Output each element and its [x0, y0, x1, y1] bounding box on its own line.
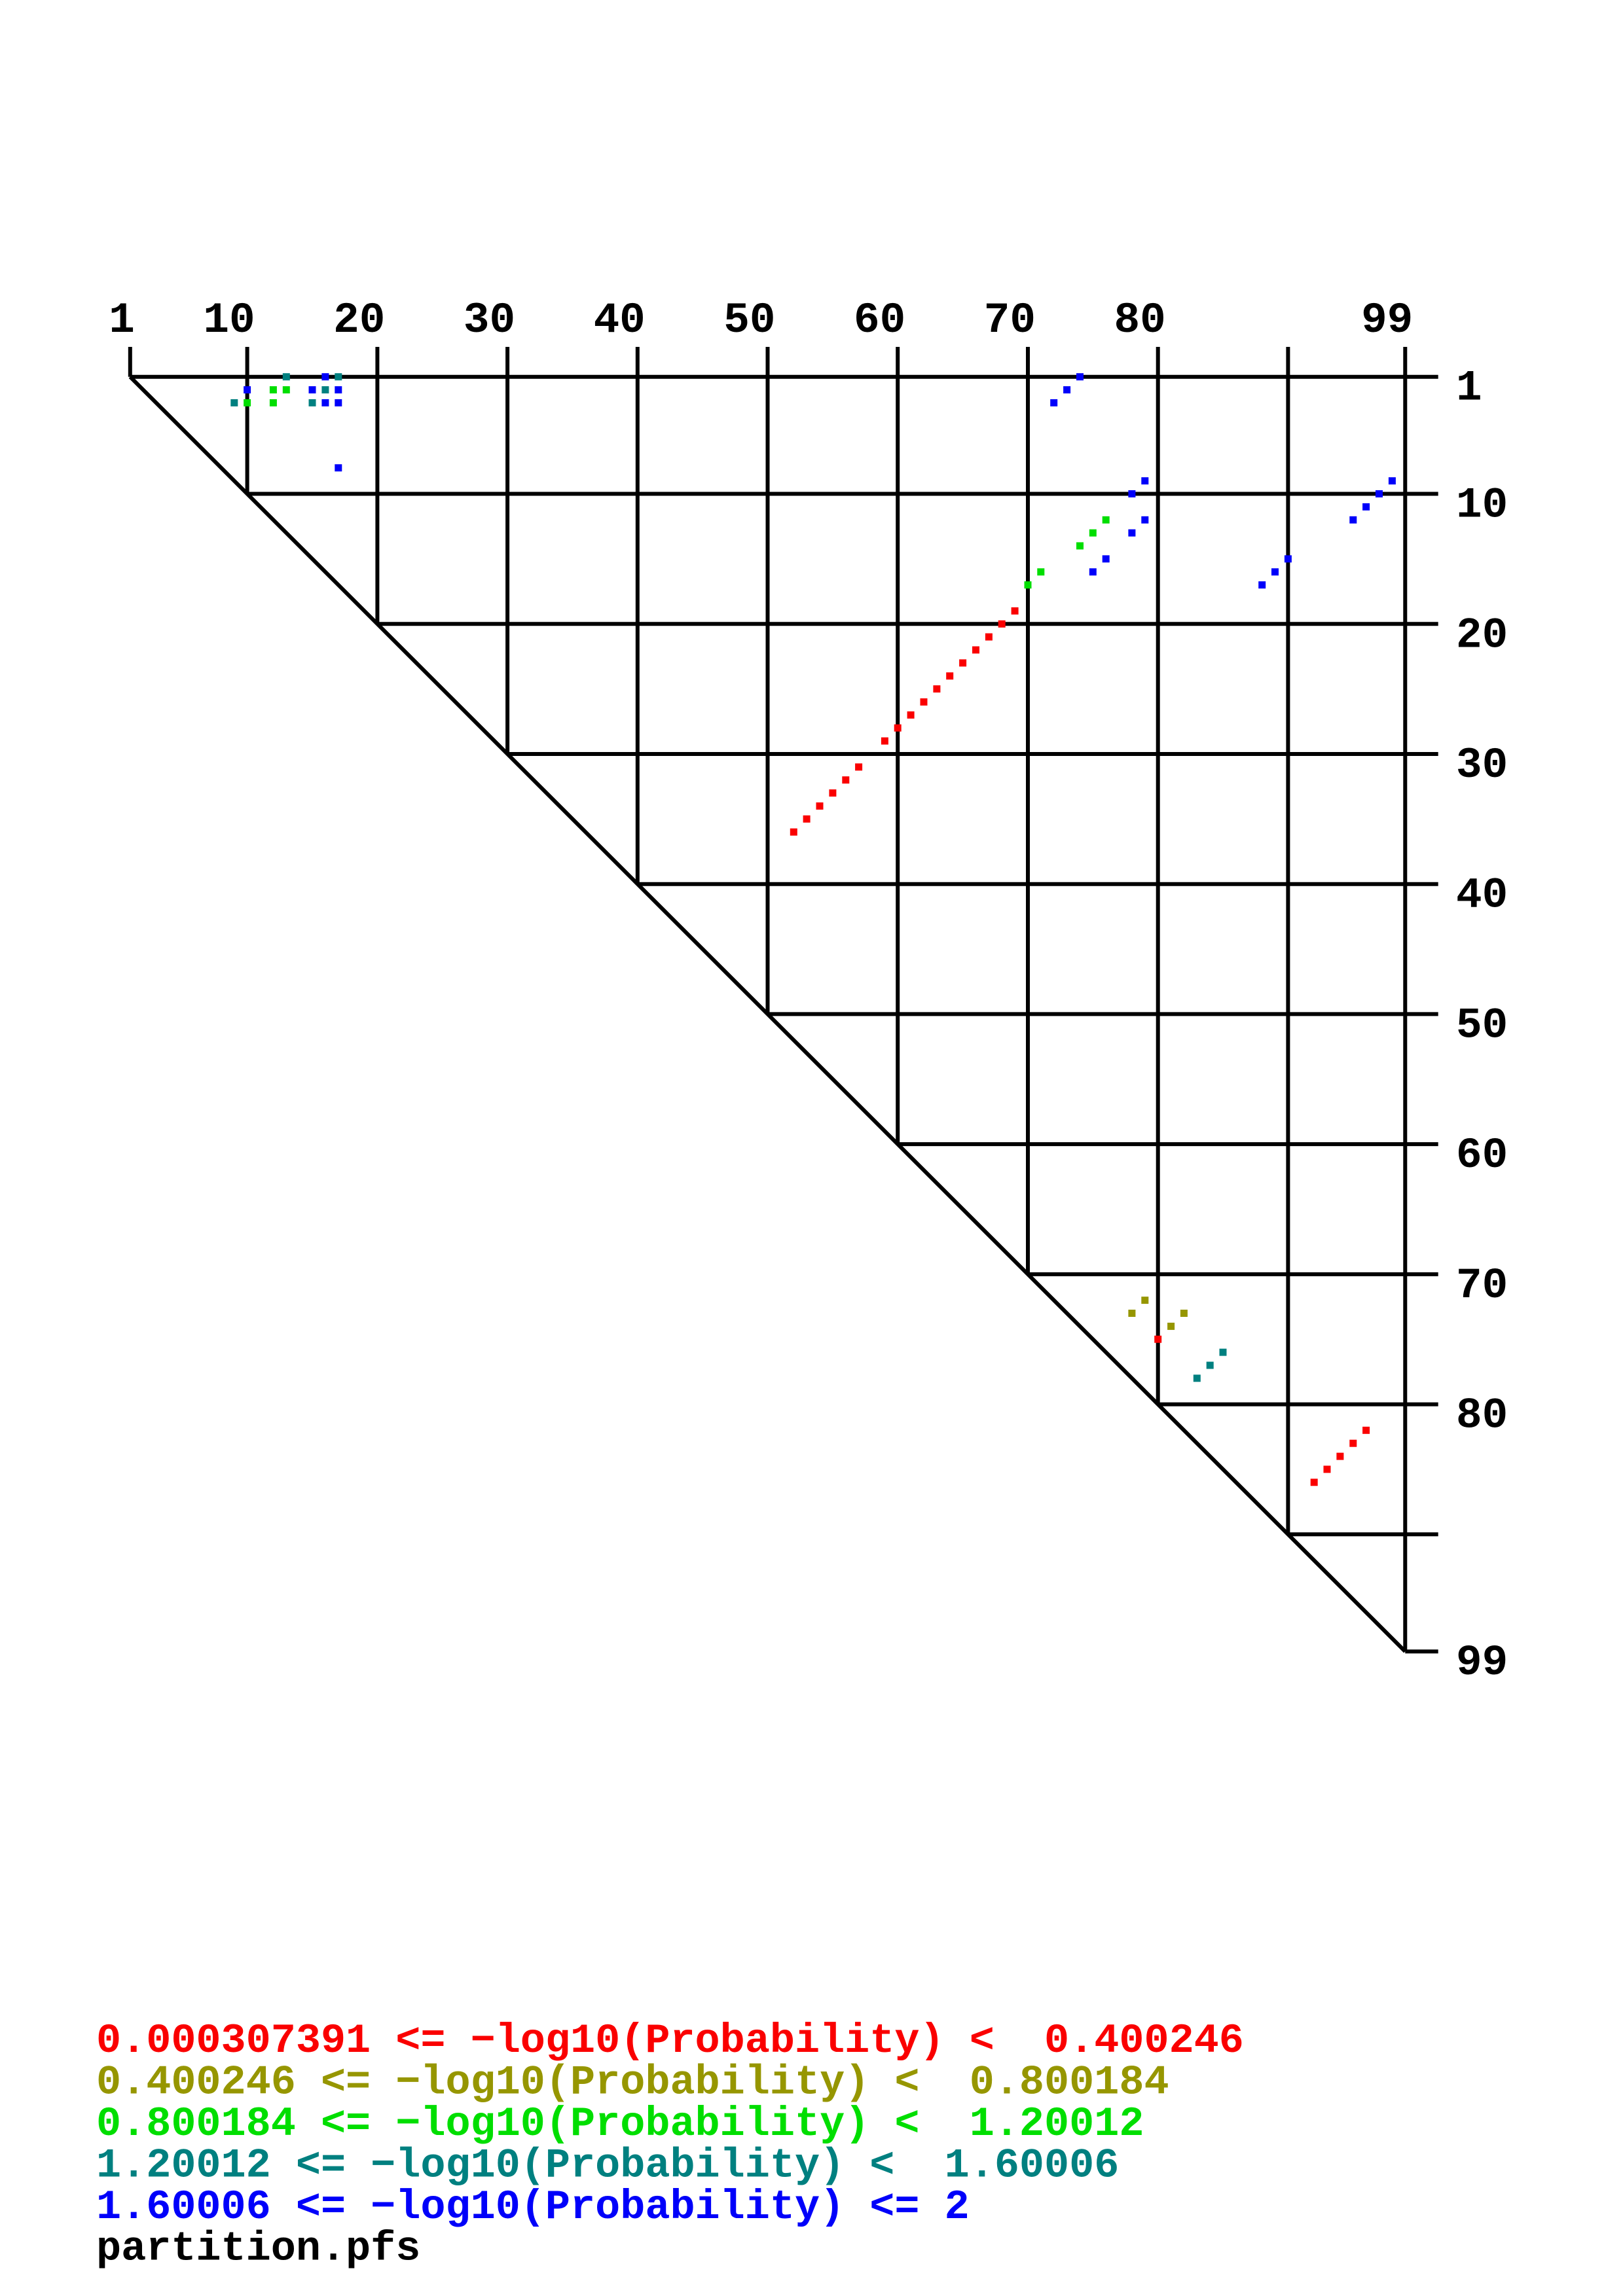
svg-text:1.60006 <= −log10(Probability): 1.60006 <= −log10(Probability) <= 2 — [96, 2184, 970, 2231]
legend — [96, 2018, 1244, 2273]
svg-text:80: 80 — [1456, 1391, 1508, 1441]
horizontal grid lines (with right ticks) — [247, 492, 1438, 496]
svg-text:30: 30 — [464, 296, 515, 345]
svg-text:10: 10 — [203, 296, 255, 345]
svg-text:20: 20 — [1456, 611, 1508, 660]
svg-text:10: 10 — [1456, 481, 1508, 530]
vertical grid lines — [246, 377, 249, 494]
svg-text:70: 70 — [1456, 1261, 1508, 1310]
svg-text:60: 60 — [1456, 1131, 1508, 1180]
svg-text:20: 20 — [333, 296, 385, 345]
probability dots — [230, 373, 1226, 1382]
main diagonal — [130, 377, 1406, 1652]
svg-text:70: 70 — [984, 296, 1036, 345]
svg-text:partition.pfs: partition.pfs — [96, 2226, 420, 2273]
svg-text:40: 40 — [594, 296, 646, 345]
svg-text:0.000307391 <= −log10(Probabil: 0.000307391 <= −log10(Probability) < 0.4… — [96, 2018, 1244, 2065]
svg-text:80: 80 — [1114, 296, 1165, 345]
svg-text:40: 40 — [1456, 871, 1508, 920]
top axis border — [130, 375, 1438, 379]
top ticks — [128, 347, 132, 377]
svg-text:0.800184 <= −log10(Probability: 0.800184 <= −log10(Probability) < 1.2001… — [96, 2101, 1144, 2148]
svg-text:1.20012 <= −log10(Probability): 1.20012 <= −log10(Probability) < 1.60006 — [96, 2143, 1119, 2190]
svg-text:0.400246 <= −log10(Probability: 0.400246 <= −log10(Probability) < 0.8001… — [96, 2060, 1169, 2107]
svg-text:99: 99 — [1456, 1638, 1508, 1687]
svg-text:60: 60 — [854, 296, 905, 345]
svg-text:1: 1 — [1456, 364, 1482, 413]
right axis border with top tick — [1403, 347, 1407, 1651]
svg-text:1: 1 — [109, 296, 135, 345]
svg-text:30: 30 — [1456, 741, 1508, 790]
svg-text:99: 99 — [1361, 296, 1413, 345]
svg-text:50: 50 — [1456, 1001, 1508, 1050]
svg-text:50: 50 — [723, 296, 775, 345]
bottom-right row 99 tick — [1405, 1649, 1438, 1653]
